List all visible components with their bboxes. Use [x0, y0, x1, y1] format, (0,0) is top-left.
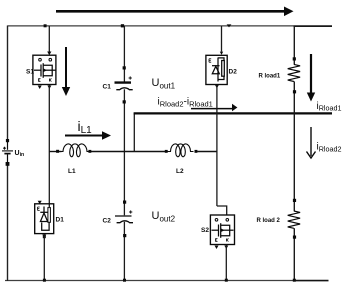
wire: top rail	[8, 25, 333, 27]
port arrows below S2	[215, 246, 229, 250]
node: D1 / bottom rail junction	[43, 279, 46, 282]
svg-text:D2: D2	[229, 69, 238, 76]
wire: D2 down through bus and middle rail to S2 (with jog)	[217, 85, 227, 215]
terminal: C1 top	[123, 66, 126, 69]
svg-text:R load1: R load1	[259, 74, 281, 80]
inductor L2	[165, 144, 198, 157]
terminal: C1 bottom	[123, 100, 126, 103]
svg-text:L1: L1	[68, 168, 76, 175]
svg-text:C2: C2	[103, 218, 112, 225]
diode D2 (diode block)	[206, 55, 227, 84]
current arrow iRload2 (down)	[307, 127, 316, 158]
wire: top rail down to S1	[48, 26, 50, 53]
svg-text:L2: L2	[176, 168, 184, 175]
wire: S2 to bottom rail	[225, 245, 227, 281]
wire: capacitor branch (C1 above, C2 below middle node)	[123, 26, 125, 281]
wire: bottom rail	[5, 280, 329, 282]
current arrow iL1 (right)	[65, 131, 111, 139]
terminal: C2 top	[123, 201, 126, 204]
resistor Rload2	[288, 211, 300, 228]
node: load branch / bottom rail junction	[293, 279, 296, 282]
node: C2 / bottom rail junction	[123, 279, 126, 282]
svg-text:S1: S1	[26, 69, 34, 76]
port arrow into D1	[38, 201, 42, 205]
port arrows below S1	[38, 86, 52, 90]
transistor switch S2 (MOSFET block)	[210, 215, 234, 245]
svg-text:C1: C1	[103, 84, 112, 91]
terminal: C2 bottom	[123, 234, 126, 237]
wire: load branch (right column)	[293, 26, 295, 281]
current arrow iRload2-iRload1 (right)	[191, 104, 237, 111]
wire: S1 to D1 (crosses middle node)	[48, 85, 50, 207]
wire: D1 to bottom rail	[43, 234, 45, 281]
node marker on top rail at D2 branch	[227, 24, 232, 27]
inductor L1	[56, 144, 91, 157]
wire: middle rail (S1/D1 node to S2/D2 node)	[49, 151, 217, 153]
port arrow below D1	[42, 235, 46, 239]
terminal: Rload2 top	[293, 199, 296, 202]
wire: middle node up to output bus	[133, 113, 135, 151]
terminal: Rload1 top	[293, 57, 296, 60]
transistor switch S1 (MOSFET block)	[33, 55, 56, 84]
current arrow iRload1 (down)	[307, 54, 315, 102]
DC source Uin (battery)	[2, 139, 13, 166]
node: top rail / S1 branch junction	[44, 24, 47, 27]
node: S2 / bottom rail junction	[225, 279, 228, 282]
terminal: Rload2 bottom	[293, 236, 296, 239]
current arrow through S1 branch (down)	[62, 47, 70, 96]
resistor Rload1	[288, 64, 300, 81]
terminal: Rload1 bottom	[293, 90, 296, 93]
port arrow into D2	[220, 52, 223, 55]
capacitor C2 (polarized)	[115, 210, 133, 222]
wire: output bus rail	[134, 112, 332, 114]
svg-text:D1: D1	[56, 217, 65, 224]
svg-text:S2: S2	[201, 227, 209, 234]
svg-text:Uin: Uin	[15, 150, 25, 158]
port arrow into S1 drain	[47, 52, 51, 56]
current direction arrow (top, pointing right)	[56, 7, 294, 17]
terminal: D1 anode	[43, 235, 46, 238]
wire: left source branch	[7, 26, 9, 282]
port arrow below D2	[215, 85, 219, 89]
diode D1 (diode block)	[35, 204, 54, 234]
capacitor C1 (polarized)	[115, 76, 133, 89]
wire: top rail down to D2	[221, 26, 223, 52]
svg-text:R load 2: R load 2	[257, 218, 281, 224]
node: top rail / capacitor branch junction	[121, 24, 124, 27]
